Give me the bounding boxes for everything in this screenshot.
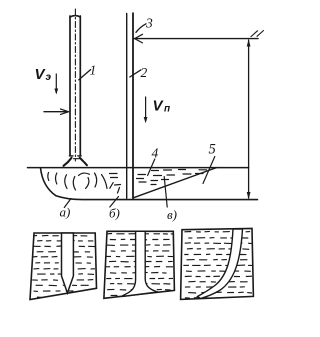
workpiece surface line bbox=[28, 167, 249, 169]
label v leader bbox=[164, 177, 167, 208]
label 4 leader bbox=[148, 159, 155, 176]
datum line left arrowhead bbox=[135, 34, 143, 43]
electrode centerline bbox=[74, 9, 76, 161]
pool swirl marks bbox=[48, 173, 107, 191]
arc flare left bbox=[64, 158, 72, 166]
electrode 1 right wall bbox=[79, 16, 81, 156]
velocity arrow Vp bbox=[144, 97, 148, 123]
fusion boundary diagonal bbox=[133, 168, 216, 198]
electrode tip bottom caps bbox=[69, 155, 81, 157]
svg-text:3: 3 bbox=[145, 16, 153, 31]
slag dashes left of plate bbox=[110, 174, 121, 194]
svg-text:5: 5 bbox=[209, 142, 216, 158]
label 3 leader bbox=[136, 24, 146, 33]
svg-text:б): б) bbox=[109, 206, 120, 221]
slag bath dashes in triangle bbox=[151, 170, 207, 185]
slag dashes right of plate bbox=[137, 175, 147, 183]
svg-text:э: э bbox=[46, 72, 52, 83]
svg-text:а): а) bbox=[60, 205, 71, 220]
velocity arrow Ve bbox=[54, 74, 58, 95]
section box 3 hatching bbox=[183, 231, 252, 298]
svg-text:1: 1 bbox=[90, 63, 97, 78]
svg-text:4: 4 bbox=[152, 146, 159, 161]
plate 2 right wall bbox=[132, 13, 134, 198]
section box 1 outline bbox=[30, 233, 97, 300]
section box 2 hatching bbox=[106, 234, 174, 296]
top datum line bbox=[134, 38, 258, 40]
label b leader bbox=[110, 197, 119, 208]
electrode top cap bbox=[70, 16, 80, 17]
electrode feed arrow bbox=[44, 109, 69, 114]
section box 1 groove bbox=[62, 233, 74, 293]
section box 1 hatching bbox=[32, 235, 95, 297]
dimension line vertical bbox=[248, 40, 250, 198]
section box 3 outline bbox=[181, 228, 254, 299]
electrode 1 left wall bbox=[69, 16, 71, 156]
dimension arrowhead bottom bbox=[247, 192, 251, 199]
svg-text:2: 2 bbox=[141, 65, 148, 80]
label a leader bbox=[64, 199, 71, 208]
label 1 leader bbox=[79, 70, 91, 80]
section box 3 curved groove bbox=[198, 229, 243, 299]
svg-text:V: V bbox=[153, 98, 165, 115]
label 5 leader bbox=[203, 157, 215, 184]
dimension arrowhead top bbox=[247, 39, 251, 46]
section box 2 outline bbox=[104, 231, 174, 298]
tick marks on datum line bbox=[251, 31, 258, 37]
arc flare right bbox=[80, 158, 87, 165]
plate 2 left wall bbox=[126, 14, 128, 199]
weld pool outline and bottom line bbox=[41, 168, 258, 200]
svg-text:в): в) bbox=[167, 207, 177, 222]
label 2 leader bbox=[130, 70, 141, 77]
svg-text:п: п bbox=[164, 104, 170, 115]
electrode tip center cross bbox=[74, 158, 79, 160]
section box 2 groove with flared root bbox=[122, 231, 158, 296]
